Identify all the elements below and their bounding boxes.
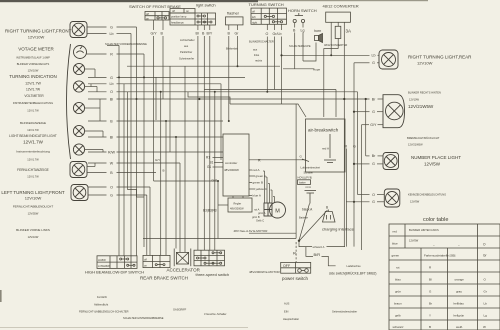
svg-text:INSTRUMENTENBELEUCHTUNG: INSTRUMENTENBELEUCHTUNG (13, 101, 53, 105)
lamp right turning light front (70, 22, 87, 38)
svg-text:12V/21W5W: 12V/21W5W (408, 104, 434, 109)
svg-text:Gr/Lb: Gr/Lb (273, 32, 282, 36)
svg-text:blau: blau (395, 278, 401, 282)
svg-text:Hupe: Hupe (313, 68, 321, 72)
lamp tail brake rear (383, 95, 405, 128)
svg-text:HIGH BEAM&LOW-DIP SWITCH: HIGH BEAM&LOW-DIP SWITCH (85, 270, 144, 275)
svg-text:12V/1.7W: 12V/1.7W (27, 109, 39, 113)
svg-text:LOWLBW: LOWLBW (98, 264, 110, 268)
svg-text:Abblendlicht: Abblendlicht (94, 303, 108, 307)
svg-text:KENNZEICHENBELEUCHTUNG: KENNZEICHENBELEUCHTUNG (408, 193, 446, 197)
svg-text:rot A: rot A (306, 185, 312, 189)
svg-text:HOV(L(PY8): HOV(L(PY8) (298, 176, 313, 180)
lamp cluster plumbing wires (85, 69, 104, 167)
svg-text:12V/10W: 12V/10W (28, 69, 39, 73)
svg-text:BLINKERANZEIGE: BLINKERANZEIGE (20, 121, 46, 125)
svg-text:REAR BRAKE SWITCH: REAR BRAKE SWITCH (140, 276, 188, 281)
scan artifact bottom faint line (0, 326, 248, 329)
regler box (228, 198, 252, 212)
power switch contacts (298, 269, 309, 273)
wire tail GY (362, 124, 384, 126)
wire v12 (169, 66, 171, 152)
svg-text:Lichtschalter: Lichtschalter (180, 38, 195, 42)
svg-text:gelb: gelb (395, 314, 401, 318)
svg-text:G: G (372, 162, 375, 166)
wire v6 (143, 54, 145, 247)
svg-text:G: G (372, 61, 375, 65)
svg-text:12V/1.7W: 12V/1.7W (25, 82, 41, 86)
rear brake contacts (155, 264, 165, 266)
svg-text:schwarz: schwarz (393, 325, 405, 329)
wire R drop (345, 149, 347, 247)
svg-text:orange: orange (455, 278, 465, 282)
svg-text:red A: red A (253, 168, 260, 172)
svg-text:BLINKER VORNE LINKS: BLINKER VORNE LINKS (16, 228, 50, 232)
wire v365 Br drop (365, 99, 367, 156)
svg-text:12V/21W5W: 12V/21W5W (408, 143, 423, 147)
wire v7 (146, 195, 148, 255)
wire B stem lightswitch (203, 25, 205, 250)
light switch contacts (197, 15, 212, 23)
svg-text:M: M (275, 209, 280, 215)
svg-text:FERNLICHT-&ABBLENDLICH-SCHALTE: FERNLICHT-&ABBLENDLICH-SCHALTER (79, 310, 129, 314)
voltmeter (74, 46, 87, 59)
svg-text:weiß: weiß (456, 325, 463, 329)
LEFT TEXT LABELS (1, 29, 71, 240)
svg-text:flasher: flasher (227, 11, 240, 16)
svg-text:12V/10W: 12V/10W (28, 35, 45, 40)
svg-text:grau: grau (456, 290, 462, 294)
svg-text:G1: G1 (207, 165, 211, 169)
svg-text:Seitenständerschalter: Seitenständerschalter (332, 310, 357, 314)
indicator lamp 5 (73, 144, 84, 155)
svg-text:48/12 KONVERTER: 48/12 KONVERTER (324, 43, 347, 47)
wire v1 (118, 45, 120, 255)
battery symbol in air-breakswitch (324, 134, 336, 163)
svg-text:GASGRIFF: GASGRIFF (173, 308, 187, 312)
svg-text:power switch: power switch (282, 276, 309, 281)
wire ladder h97 (188, 92, 230, 104)
wire R dashed power (295, 242, 297, 262)
svg-text:rechts: rechts (255, 59, 263, 63)
svg-text:AUS: AUS (284, 302, 290, 306)
air-breakswitch S5 (306, 119, 346, 172)
lamp number plate light (383, 153, 399, 170)
accelerator sensor (174, 249, 191, 267)
svg-text:links: links (254, 53, 260, 57)
front brake switch contacts (157, 17, 167, 19)
three speed contacts (197, 252, 222, 264)
wire ground bus (143, 238, 296, 240)
wire kennzeichen O (358, 194, 385, 196)
turning switch contacts (264, 15, 282, 23)
svg-text:Bl: Bl (110, 135, 113, 139)
svg-text:BLINKER RECHTS HINTEN: BLINKER RECHTS HINTEN (408, 91, 441, 95)
svg-text:12V/5W: 12V/5W (409, 239, 419, 243)
svg-text:O: O (372, 193, 375, 197)
wire Lb lamp1 (87, 33, 131, 35)
svg-text:12V/1.7W: 12V/1.7W (27, 175, 39, 179)
svg-text:blue A: blue A (253, 194, 261, 198)
wire v3 (130, 34, 132, 256)
wire h104 (230, 104, 306, 117)
wire tail G (354, 111, 383, 113)
svg-text:VOLTMETER: VOLTMETER (24, 94, 44, 98)
svg-text:side switch(BRÜCKE,BFT SMB2): side switch(BRÜCKE,BFT SMB2) (329, 272, 376, 276)
indicator lamp 4 (73, 125, 84, 136)
svg-text:BREMSLICHT/RÜCKLICHT: BREMSLICHT/RÜCKLICHT (407, 136, 440, 140)
svg-text:O: O (110, 185, 113, 189)
high beam switch contacts (120, 258, 135, 266)
svg-text:Bl: Bl (110, 97, 113, 101)
svg-text:hellblau: hellblau (454, 302, 465, 306)
svg-text:VOTAGE METER: VOTAGE METER (18, 47, 54, 52)
lamp kennzeichen (384, 189, 400, 207)
svg-text:3 Geschw.-Schalter: 3 Geschw.-Schalter (204, 312, 227, 316)
svg-text:Lg: Lg (301, 29, 305, 33)
svg-text:hellgrün: hellgrün (454, 314, 465, 318)
svg-text:rot: rot (396, 266, 400, 270)
wire v14 (179, 163, 181, 252)
scan artifact top edge band (0, 0, 258, 2)
svg-text:RIGHT TURNING LIGHT,REAR: RIGHT TURNING LIGHT,REAR (408, 55, 472, 60)
svg-text:12V/1.7W: 12V/1.7W (26, 88, 40, 92)
svg-text:Y: Y (429, 314, 431, 318)
wire v15 (184, 66, 186, 252)
wire horn B stem (294, 23, 296, 69)
svg-text:12V/5W: 12V/5W (424, 162, 441, 167)
three speed switch S9 (194, 250, 225, 266)
svg-text:yellow C: yellow C (256, 187, 268, 191)
svg-text:BLINKER VORNE RECHTS: BLINKER VORNE RECHTS (17, 62, 50, 66)
svg-text:right: right (252, 21, 257, 25)
wire horn Lg stem (302, 23, 304, 61)
svg-text:RIGHT TURNING LIGHT,FRONT: RIGHT TURNING LIGHT,FRONT (5, 29, 72, 34)
wire B/R path (306, 247, 336, 266)
indicator lamp 1 (73, 63, 84, 74)
wire v336 (335, 90, 337, 118)
wire flasher B stem (228, 25, 230, 121)
svg-text:G: G (372, 110, 375, 114)
wire O lamp left front (88, 186, 150, 188)
svg-text:Farbencodetabelle [SB]: Farbencodetabelle [SB] (424, 254, 456, 258)
wire diagonal battery 2 (300, 210, 328, 241)
lamp high beam indicator (70, 162, 87, 178)
svg-text:G: G (110, 26, 113, 30)
fuse 3A (335, 26, 341, 38)
svg-text:HI-BW: HI-BW (98, 258, 106, 262)
svg-text:3A: 3A (346, 29, 352, 34)
controller motor wires (249, 170, 255, 196)
svg-text:green: green (392, 254, 400, 258)
wire v16 (214, 92, 216, 250)
svg-text:green B: green B (253, 181, 264, 185)
wire h66 (127, 65, 280, 67)
svg-text:Lg: Lg (484, 314, 488, 318)
wire v4 (136, 27, 138, 256)
svg-text:B: B (429, 325, 431, 329)
wire converter stem 3 (343, 22, 345, 246)
wire h48 (324, 49, 338, 117)
svg-text:OFF: OFF (283, 264, 291, 268)
wire v361 GY drop (361, 125, 363, 250)
svg-text:48/12 CONVERTER: 48/12 CONVERTER (323, 4, 359, 9)
svg-text:NUMBER PLACE LIGHT: NUMBER PLACE LIGHT (411, 155, 461, 160)
svg-text:SCHALTER HINTERRADBREMSE: SCHALTER HINTERRADBREMSE (123, 316, 164, 320)
svg-text:EIN: EIN (284, 310, 288, 314)
svg-text:LIGHT BEAM INDICATOR LIGHT: LIGHT BEAM INDICATOR LIGHT (9, 134, 57, 138)
wire converter stem 2 fuse (337, 22, 339, 48)
svg-text:O: O (110, 90, 113, 94)
svg-text:48V2000W: 48V2000W (224, 168, 239, 172)
svg-text:blue: blue (392, 242, 398, 246)
svg-text:grün B: grün B (252, 215, 260, 219)
svg-text:charging interface: charging interface (322, 227, 355, 232)
color table grid (389, 224, 500, 330)
svg-text:Schalter: Schalter (304, 171, 314, 175)
rear brake switch S8 (143, 255, 170, 267)
svg-text:12V/5W: 12V/5W (410, 200, 420, 204)
svg-text:B: B (163, 169, 165, 173)
wire Bl bus 2 (88, 136, 223, 138)
svg-text:Regler: Regler (234, 202, 242, 206)
motor M1 (264, 202, 286, 218)
svg-text:Lb: Lb (110, 82, 114, 86)
svg-text:Scheinwerfer: Scheinwerfer (179, 57, 194, 61)
svg-text:FERNLICHT/ABBLENDLICHT: FERNLICHT/ABBLENDLICHT (13, 205, 54, 209)
wire v17 (220, 84, 222, 160)
svg-text:48V/2000W: 48V/2000W (230, 207, 244, 211)
power switch S6 (281, 262, 311, 273)
svg-text:TURNING SWITCH: TURNING SWITCH (249, 2, 284, 7)
charging interface plug (323, 212, 336, 223)
svg-text:controller: controller (225, 161, 237, 165)
wire diagonal battery 1 (299, 204, 310, 241)
horn switch S4 (293, 13, 305, 23)
wire B stem brake (162, 20, 164, 99)
svg-text:R: R (345, 145, 348, 149)
svg-text:G/Y: G/Y (370, 123, 377, 127)
light switch S2 (170, 9, 216, 26)
wire numberplate Br (366, 155, 383, 157)
svg-text:aus: aus (184, 45, 189, 48)
lamp left turning light front (71, 185, 88, 201)
wire Br stem lightswitch (197, 25, 199, 250)
svg-text:red A: red A (322, 147, 329, 151)
svg-text:Br: Br (429, 302, 432, 306)
svg-text:Lb: Lb (372, 54, 376, 58)
svg-text:Fernlicht: Fernlicht (97, 295, 107, 299)
svg-text:batter: batter (299, 181, 306, 185)
wire O bus (88, 91, 358, 93)
svg-text:B/Y: B/Y (207, 31, 213, 35)
svg-text:red: red (393, 230, 398, 234)
wire G/Y controller drop (154, 181, 218, 239)
svg-text:color table: color table (423, 217, 448, 223)
wire h89 (204, 89, 336, 91)
svg-text:braun: braun (394, 302, 402, 306)
svg-text:aus: aus (253, 49, 258, 52)
wire schwarz A (299, 241, 345, 247)
svg-text:R/W: R/W (108, 150, 116, 154)
svg-text:Hauptschalter: Hauptschalter (283, 317, 299, 321)
scan artifact left edge mark (0, 290, 2, 302)
capacitor C1 (305, 191, 317, 204)
svg-text:left: left (252, 15, 256, 19)
svg-text:Instrumentenbeleuchtung: Instrumentenbeleuchtung (16, 150, 50, 154)
svg-text:Lb: Lb (484, 302, 488, 306)
wire R voltmeter (87, 53, 145, 55)
indicator lamp 2 (73, 81, 84, 92)
wire W bus (88, 162, 180, 164)
svg-text:TURNING INDICATION: TURNING INDICATION (9, 74, 56, 79)
svg-text:off: off (146, 12, 149, 16)
svg-text:light switch: light switch (196, 3, 216, 8)
svg-text:three-speed switch: three-speed switch (196, 272, 230, 277)
regler connect wires (218, 196, 243, 205)
wire v10 (160, 92, 162, 256)
wire Bl Br bus (88, 98, 383, 100)
svg-text:G/Y: G/Y (151, 31, 158, 35)
wire v8 (149, 187, 151, 255)
svg-text:48V Neu-A AV E-MOTOR: 48V Neu-A AV E-MOTOR (234, 229, 269, 233)
svg-text:off: off (144, 257, 147, 261)
svg-text:grün: grün (395, 290, 401, 294)
svg-text:W: W (483, 325, 486, 329)
wire Lb to rear lamp (282, 54, 380, 56)
svg-text:12V/1.7W: 12V/1.7W (27, 158, 39, 162)
wire B plug stem (327, 210, 329, 212)
WIRE BUS LABELS LEFT (108, 26, 116, 198)
wire turning GrLb stem (273, 24, 275, 89)
wire converter stem 1 (330, 22, 332, 55)
flasher relay (226, 17, 244, 25)
wire short top (107, 44, 119, 46)
svg-text:off: off (172, 9, 175, 13)
svg-text:BLINKER HINTEN LINKS: BLINKER HINTEN LINKS (409, 228, 439, 232)
svg-text:12V10W: 12V10W (417, 61, 433, 66)
front brake switch S1 (145, 12, 169, 21)
svg-text:air-breakswitch: air-breakswitch (308, 128, 339, 133)
svg-text:Gelb C: Gelb C (256, 219, 264, 223)
48/12 converter U1 (326, 12, 351, 22)
svg-text:G: G (110, 193, 113, 197)
emotor underline (249, 232, 296, 234)
wire v2 (123, 84, 125, 256)
wire G lamp1 (87, 26, 137, 28)
svg-text:Bl: Bl (429, 278, 432, 282)
instrument cluster brace (67, 44, 71, 159)
lamp right turning rear (379, 50, 398, 69)
wire v357 O drop (357, 92, 359, 195)
svg-text:12V/55W: 12V/55W (28, 212, 39, 216)
wire R/W bus (88, 151, 223, 153)
svg-text:Ladebuchse: Ladebuchse (347, 264, 362, 268)
svg-text:B: B (326, 206, 328, 210)
controller stub wires (213, 158, 224, 168)
wire G/Y stem (153, 20, 155, 181)
wire v9 (155, 77, 157, 120)
indicator lamp 3 (73, 102, 84, 113)
wire numberplate G (354, 163, 383, 165)
wire v5 staircase (128, 92, 144, 197)
horn (315, 34, 323, 43)
wire G bus (88, 76, 245, 78)
wire flasher Gr stem (237, 25, 239, 66)
wire turning right stem (281, 24, 283, 104)
wire kennzeichen G (346, 201, 384, 203)
svg-text:12V/10W: 12V/10W (28, 235, 39, 239)
svg-text:R: R (110, 53, 113, 57)
svg-text:Blinkrelais: Blinkrelais (226, 47, 239, 51)
svg-text:W: W (110, 161, 114, 165)
svg-text:12V10W: 12V10W (409, 98, 420, 102)
controller U2 (223, 134, 249, 196)
svg-text:G: G (353, 145, 356, 149)
svg-text:INSTRUMENT,6LAUF 1.6MP: INSTRUMENT,6LAUF 1.6MP (16, 56, 50, 60)
svg-text:R: R (258, 158, 261, 162)
svg-text:headlamps: headlamps (171, 21, 184, 25)
wire v11 (165, 121, 167, 255)
svg-text:O: O (266, 32, 269, 36)
svg-text:Luftunterbrecheri: Luftunterbrecheri (301, 166, 321, 170)
svg-text:B/R: B/R (314, 252, 321, 257)
svg-text:Lb: Lb (110, 32, 114, 36)
svg-text:LEFT TURNING LIGHT,FRONT: LEFT TURNING LIGHT,FRONT (1, 190, 65, 195)
svg-text:12V/10W: 12V/10W (25, 196, 42, 201)
wire B bus 2 (87, 172, 156, 174)
wire B/Y stem lightswitch (209, 25, 211, 250)
svg-text:12V/1.7W: 12V/1.7W (23, 140, 44, 145)
high beam low dip switch S7 (97, 256, 137, 269)
svg-text:G: G (110, 76, 113, 80)
svg-text:FERNLICHTANZEIGE: FERNLICHTANZEIGE (17, 168, 49, 172)
svg-text:horn: horn (314, 29, 321, 33)
wire v354 G (353, 63, 355, 247)
svg-text:HORN SWITCH: HORN SWITCH (288, 8, 317, 13)
svg-text:rot A: rot A (254, 208, 260, 212)
svg-text:R: R (293, 251, 296, 256)
wire Hupe (283, 68, 314, 70)
svg-text:BLINKERSCHALTER: BLINKERSCHALTER (249, 40, 274, 44)
turning switch S3 (251, 8, 287, 24)
svg-text:G/Y: G/Y (155, 158, 160, 162)
svg-text:Gr: Gr (484, 290, 487, 294)
svg-text:grün A: grün A (258, 211, 266, 215)
svg-text:Batterie: Batterie (299, 216, 308, 220)
svg-text:schwarz A: schwarz A (313, 245, 325, 249)
wire B bus (88, 120, 223, 122)
motor bundle wires (263, 171, 275, 203)
svg-text:off: off (252, 10, 255, 14)
wire turning O stem (266, 24, 268, 92)
wire G converter to rear lamp (354, 62, 379, 64)
svg-text:G: G (372, 200, 375, 204)
svg-text:SCHALTER HUPE: SCHALTER HUPE (289, 44, 311, 48)
svg-text:position lamp: position lamp (171, 15, 187, 19)
svg-text:Parklichter: Parklichter (180, 50, 192, 54)
wire Lb bus (88, 83, 221, 85)
wire v13 (175, 137, 177, 249)
wire G lamp left front (88, 194, 147, 196)
svg-text:12V/1.7W: 12V/1.7W (27, 128, 39, 132)
svg-text:48V/2000W E-MOTOR: 48V/2000W E-MOTOR (249, 270, 280, 274)
color table texts (392, 228, 488, 329)
wire horn connect (303, 43, 316, 62)
wire v296 (295, 104, 297, 239)
wire R air switch (249, 159, 306, 161)
